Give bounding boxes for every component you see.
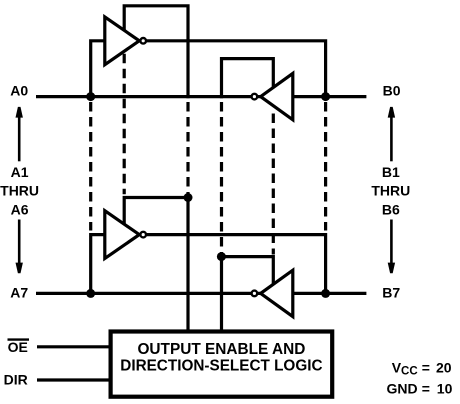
- svg-text:A1: A1: [11, 164, 29, 180]
- junction dot B7: [321, 289, 330, 298]
- bubble on U2 output: [252, 94, 258, 100]
- buffer U4 (B-to-A, bottom channel): [261, 270, 293, 316]
- bubble on U4 output: [252, 291, 258, 297]
- wire net EAB solid to logic box: [186, 195, 189, 334]
- bubble on U3 output: [140, 232, 146, 238]
- arrow A1-A6 range: [16, 107, 23, 273]
- wire U1 enable loop to net EAB: [124, 6, 188, 98]
- wire net EAB dashed through channels 1-6: [186, 102, 189, 195]
- wire OE input: [37, 345, 112, 348]
- wire dashed U1-enable rail channels 1-6: [123, 54, 126, 195]
- svg-text:OE: OE: [8, 339, 28, 355]
- wire U3 enable from net EAB: [124, 198, 188, 226]
- buffer U3 (A-to-B, bottom channel): [105, 211, 140, 259]
- junction dot B0: [321, 92, 330, 101]
- wire U4 enable from net EBA: [221, 257, 273, 287]
- wire net EBA solid to logic box: [220, 254, 223, 335]
- svg-text:B6: B6: [382, 201, 400, 217]
- wire U3 output to B7: [143, 235, 325, 294]
- svg-text:DIR: DIR: [4, 372, 28, 388]
- wire U1 output to B0: [143, 41, 325, 97]
- svg-text:DIRECTION-SELECT LOGIC: DIRECTION-SELECT LOGIC: [120, 357, 322, 374]
- wire U3 input tap from A7: [91, 235, 106, 294]
- svg-text:A0: A0: [10, 83, 28, 99]
- logic box: output enable and direction-select logic: [111, 332, 333, 397]
- svg-text:B0: B0: [383, 83, 401, 99]
- buffer U1 (A-to-B, top channel): [105, 17, 140, 65]
- junction dot net EBA at U4 enable: [217, 252, 226, 261]
- svg-text:A7: A7: [10, 284, 28, 300]
- arrow B1-B6 range: [388, 107, 395, 273]
- junction dot A7 tap: [86, 289, 95, 298]
- buffer U2 (B-to-A, top channel): [261, 73, 293, 119]
- wire net EBA dashed through channels 1-6: [220, 102, 223, 254]
- junction dot A0 tap: [86, 92, 95, 101]
- wire dashed U2-enable rail channels 1-6: [272, 114, 275, 255]
- bubble on U1 output: [140, 38, 146, 44]
- svg-text:B1: B1: [382, 164, 400, 180]
- wire DIR input: [37, 378, 112, 381]
- svg-text:OUTPUT ENABLE AND: OUTPUT ENABLE AND: [137, 341, 305, 358]
- wire U1 input tap from A0: [91, 41, 106, 97]
- svg-text:THRU: THRU: [371, 183, 410, 199]
- svg-text:THRU: THRU: [0, 183, 39, 199]
- svg-text:VCC=20: VCC=20: [392, 360, 452, 378]
- junction dot net EAB at U3 enable: [184, 193, 193, 202]
- wire A0-B0 line: [36, 95, 366, 98]
- wire dashed A-pin rail channels 1-6: [89, 102, 92, 231]
- wire dashed B-pin rail channels 1-6: [324, 102, 327, 231]
- svg-text:A6: A6: [11, 201, 29, 217]
- wire U2 enable loop to net EBA: [222, 59, 274, 99]
- wire A7-B7 line: [36, 292, 366, 295]
- svg-text:B7: B7: [382, 285, 400, 301]
